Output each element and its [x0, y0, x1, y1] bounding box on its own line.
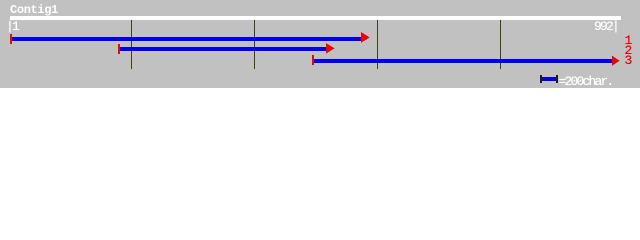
read 2 line	[120, 47, 328, 51]
read 3 number label	[625, 54, 631, 67]
title Contig1	[10, 4, 58, 16]
read 3 arrowhead	[0, 0, 640, 88]
read 2 arrowhead	[0, 0, 640, 88]
read 1 arrowhead	[0, 0, 640, 88]
gridline 200	[131, 20, 132, 69]
read 1 start tick	[10, 34, 12, 44]
read 1 line	[12, 37, 363, 41]
legend text =200char.	[559, 75, 613, 88]
ruler label |1	[6, 20, 18, 33]
gridline 400	[254, 20, 255, 69]
gridline 600	[377, 20, 378, 69]
legend right tick	[556, 75, 558, 83]
ruler label 992|	[594, 20, 618, 33]
read 2 start tick	[118, 44, 120, 54]
read 3 start tick	[312, 55, 314, 65]
read 1 number label	[625, 34, 631, 47]
read 3 line	[314, 59, 614, 63]
ruler bar	[10, 16, 621, 20]
gridline 800	[500, 20, 501, 69]
legend bar	[542, 77, 557, 81]
legend left tick	[540, 75, 542, 83]
read 2 number label	[625, 44, 631, 57]
